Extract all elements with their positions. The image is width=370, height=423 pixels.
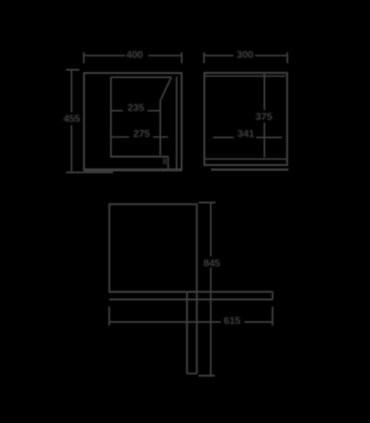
- svg-text:455: 455: [63, 114, 80, 125]
- svg-text:400: 400: [126, 50, 143, 61]
- svg-text:235: 235: [127, 103, 144, 114]
- svg-text:341: 341: [237, 129, 254, 140]
- svg-text:275: 275: [133, 129, 150, 140]
- svg-text:615: 615: [224, 316, 241, 327]
- svg-text:845: 845: [203, 258, 220, 269]
- svg-text:375: 375: [255, 112, 272, 123]
- svg-text:300: 300: [237, 50, 254, 61]
